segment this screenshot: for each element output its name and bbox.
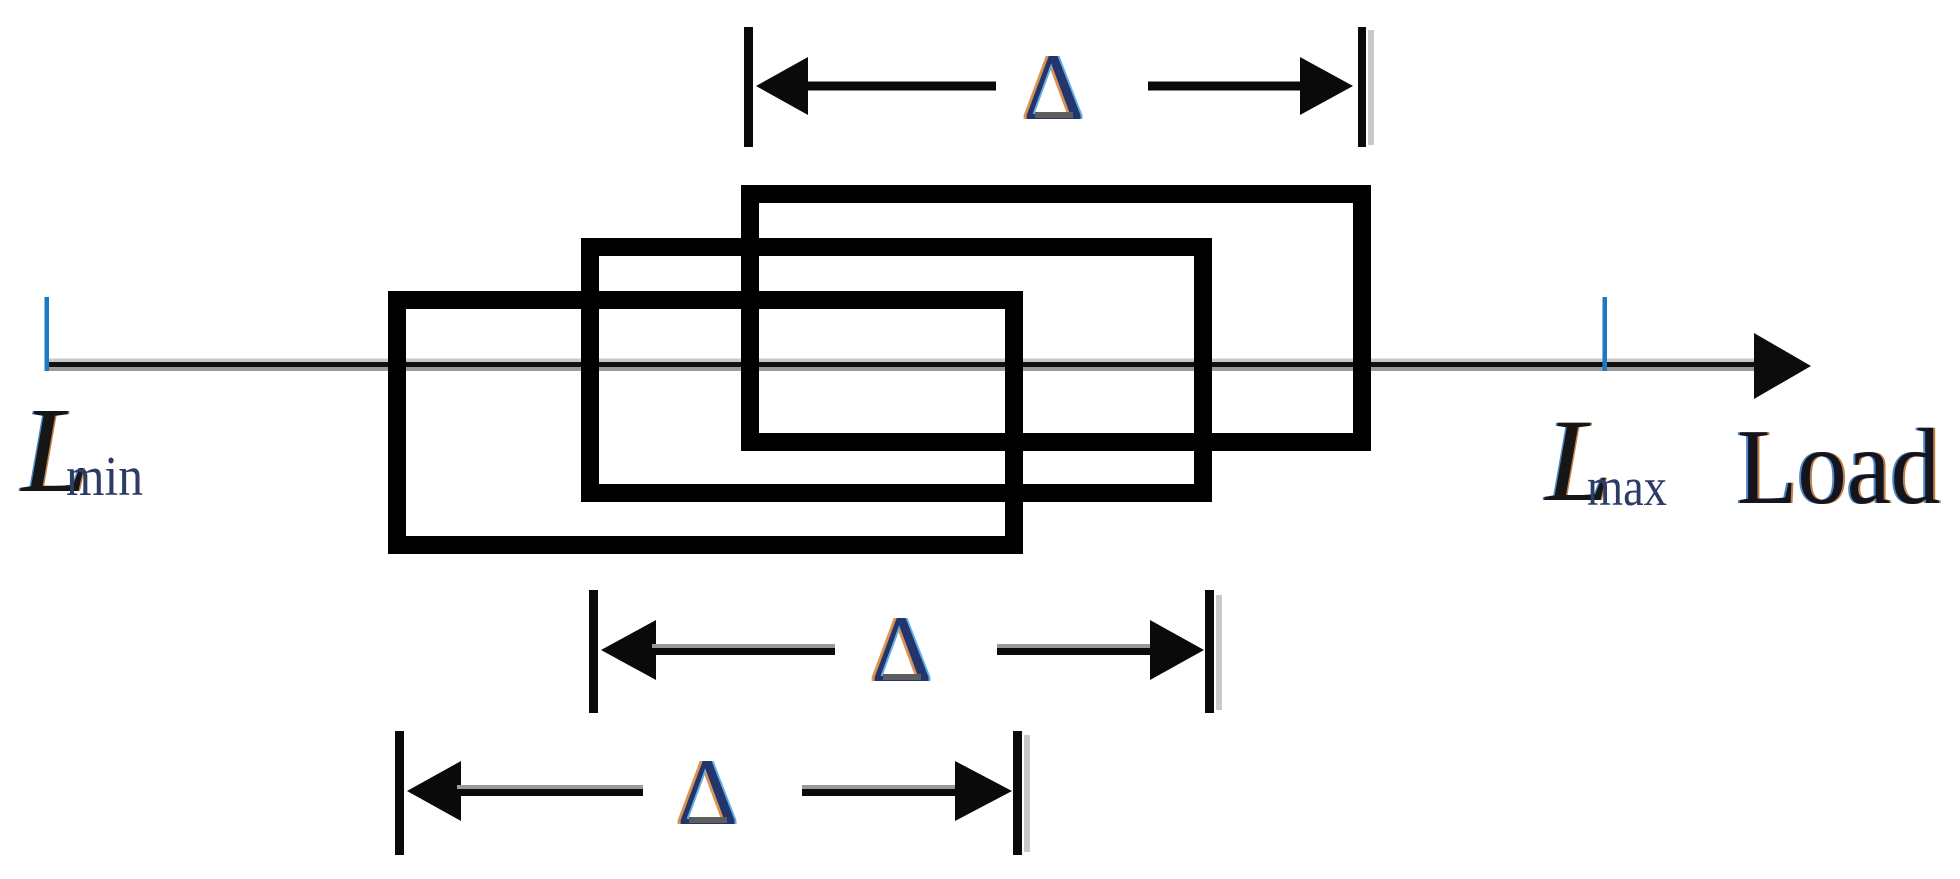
svg-text:Δ: Δ [677,739,738,845]
dimension bottom: left arrowhead [407,761,461,821]
dimension top: left tick [744,27,753,147]
dimension bottom: right shaft [802,785,957,796]
ghost line top-right tick [1368,30,1374,145]
ghost line middle-right tick [1216,595,1222,710]
svg-text:min: min [66,446,143,508]
label Lmax [1542,395,1667,526]
rectangle B (middle box) [590,247,1203,493]
dimension middle: left arrowhead [601,620,656,680]
dimension middle: right tick [1205,590,1214,713]
dimension top: left shaft [804,82,996,91]
dimension top: right tick [1358,27,1366,147]
dimension bottom: left shaft [457,785,643,796]
rectangle A (top/right box) [750,194,1362,442]
svg-text:Δ: Δ [871,596,932,702]
dimension middle: left shaft [652,644,835,655]
tick Lmin (blue) [45,297,50,371]
svg-text:Δ: Δ [1023,34,1084,140]
axis line (Load axis) [48,359,1757,372]
dimension bottom: left tick [395,731,404,855]
dimension middle: right shaft [997,644,1152,655]
tick Lmax (blue) [1603,297,1608,371]
delta symbol middle [868,596,934,702]
dimension middle: right arrowhead [1150,620,1204,680]
rectangle C (bottom/left box) [397,300,1014,545]
label Lmin [18,383,143,518]
svg-text:Load: Load [1737,408,1940,527]
dimension top: right arrowhead [1300,57,1353,115]
dimension top: left arrowhead [756,57,808,115]
dimension middle: left tick [589,590,598,713]
label Load [1735,408,1942,527]
svg-text:max: max [1587,457,1667,517]
dimension bottom: right tick [1013,731,1022,855]
ghost line bottom-right tick [1024,735,1030,852]
axis arrowhead [1754,333,1811,399]
dimension top: right shaft [1148,82,1303,91]
delta symbol bottom [674,739,740,845]
dimension bottom: right arrowhead [955,761,1012,821]
delta symbol top [1020,34,1086,140]
